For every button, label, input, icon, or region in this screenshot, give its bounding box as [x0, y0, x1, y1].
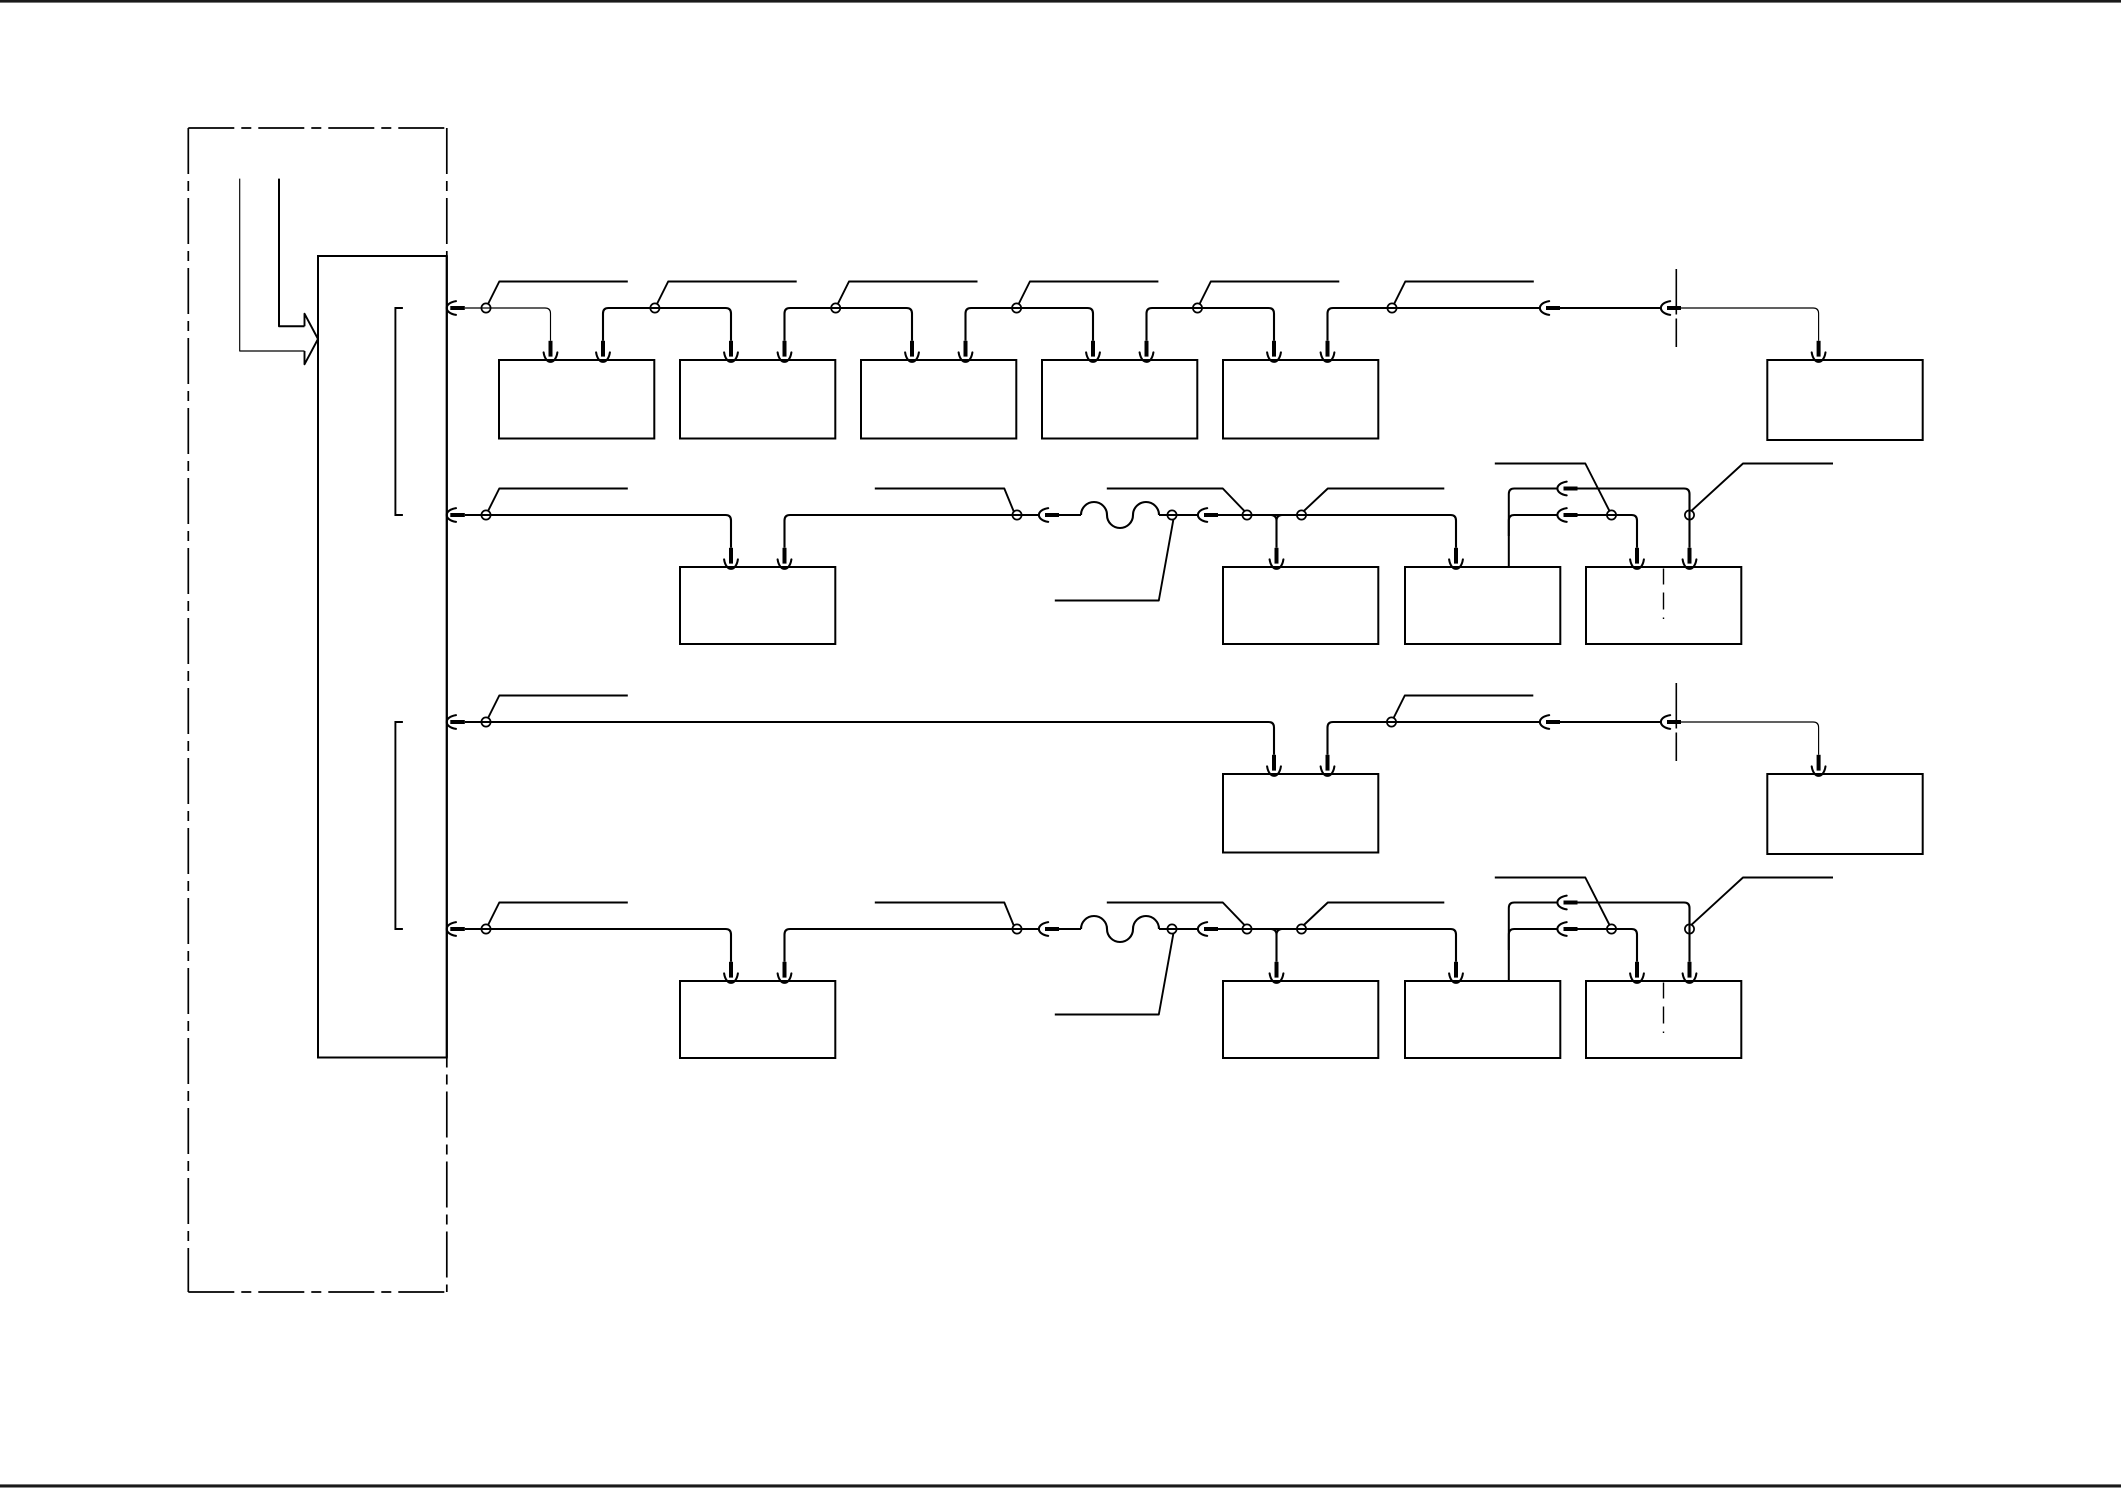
terminal blade 3A-2 [1326, 755, 1330, 771]
callout leader S1-4 [1018, 282, 1158, 305]
page bottom border bar [0, 1484, 2121, 1487]
receptacle cup M6 [1812, 352, 1826, 361]
splice ring S2-B [1167, 510, 1176, 519]
receptacle cup 4C-1 [1449, 973, 1463, 982]
bracket circuits 1-2 [395, 308, 403, 515]
terminal blade 2B [1275, 548, 1279, 564]
splice ring S2-A [1012, 510, 1021, 519]
wire circuit1 seg f [1328, 308, 1541, 341]
wire circuit4 seg e [1218, 929, 1456, 962]
wire circuit4 seg c [1059, 928, 1081, 930]
unit box row1-2 [680, 360, 835, 439]
connector socket X1 (circuit 2 feed) [447, 508, 456, 522]
receptacle cup M1-2 [596, 352, 610, 361]
unit box row4-C [1586, 981, 1741, 1058]
connector blade X1 (circuit 3 feed) [450, 720, 465, 724]
junction block right bus line [446, 256, 448, 1058]
connector socket X2b inline [1198, 508, 1207, 522]
splice ring S1-3 [831, 303, 840, 312]
wire stacked lower out circuit2 [1578, 515, 1638, 548]
callout leader S2-C [1107, 489, 1245, 512]
connector socket X4a inline [1039, 922, 1048, 936]
callout leader S2-E2 [1691, 464, 1833, 511]
splice ring S1-4 [1012, 303, 1021, 312]
terminal blade M5-1 [1272, 341, 1276, 357]
connector blade X4b inline [1204, 927, 1218, 931]
receptacle cup M1-1 [544, 352, 558, 361]
connector blade X1 (circuit 1 feed) [450, 306, 465, 310]
receptacle cup 2B [1270, 559, 1284, 568]
splice ring S1-5 [1193, 303, 1202, 312]
wire circuit2 seg a [465, 515, 731, 548]
connector socket X4b inline [1198, 922, 1207, 936]
callout leader S4-E2 [1691, 878, 1833, 925]
terminal blade M3-1 [910, 341, 914, 357]
unit box row1-3 [861, 360, 1016, 439]
callout leader S2-A [875, 489, 1014, 512]
connector socket X1 (circuit 3 feed) [447, 715, 456, 729]
splice ring S2-0 [481, 510, 490, 519]
connector blade X4a inline [1045, 927, 1059, 931]
wire circuit1 seg d [966, 308, 1094, 341]
trunk line lower (dash-dot) [446, 1058, 448, 1293]
connector blade X3b inline [1667, 720, 1681, 724]
receptacle cup M2-1 [724, 352, 738, 361]
vehicle body outline top edge (dash-dot) [188, 127, 447, 129]
terminal blade 2D-1 [1635, 548, 1639, 564]
receptacle cup 2C-1 [1449, 559, 1463, 568]
terminal blade 4D-2 [1688, 962, 1692, 978]
terminal blade 4A-2 [783, 962, 787, 978]
terminal blade M4-2 [1145, 341, 1149, 357]
callout leader S1-1 [488, 282, 628, 305]
terminal blade 4D-1 [1635, 962, 1639, 978]
connector blade X4c stacked upper [1564, 901, 1578, 905]
terminal blade 3B [1817, 755, 1821, 771]
terminal blade M1-1 [549, 341, 553, 357]
connector blade X2a inline [1045, 513, 1059, 517]
terminal blade M1-2 [601, 341, 605, 357]
wire circuit4 seg b [785, 929, 1040, 962]
terminal blade 4B [1275, 962, 1279, 978]
connector blade X1 (circuit 4 feed) [450, 927, 465, 931]
receptacle cup M5-2 [1321, 352, 1335, 361]
unit box row4-1 [680, 981, 835, 1058]
connector blade X2b inline [1667, 306, 1681, 310]
receptacle cup 3B [1812, 766, 1826, 775]
callout leader S4-D [1303, 903, 1444, 926]
junction block J/B [318, 256, 447, 1058]
splice ring S1-1 [481, 303, 490, 312]
receptacle cup 3A-1 [1267, 766, 1281, 775]
terminal blade 4C-1 [1454, 962, 1458, 978]
callout leader S2-0 [488, 489, 628, 512]
receptacle cup 2D-2 [1683, 559, 1697, 568]
callout leader S4-B [1055, 933, 1174, 1014]
receptacle cup 2D-1 [1630, 559, 1644, 568]
receptacle cup 2A-1 [724, 559, 738, 568]
unit box row4-B [1405, 981, 1560, 1058]
terminal blade M2-1 [729, 341, 733, 357]
unit box row1-1 [499, 360, 654, 439]
wire circuit1 seg b [603, 308, 731, 341]
connector blade X2a inline [1546, 306, 1560, 310]
receptacle cup M4-1 [1086, 352, 1100, 361]
unit box row2-A [1223, 567, 1378, 644]
receptacle cup M5-1 [1267, 352, 1281, 361]
branch tee circuit2 [1271, 515, 1281, 548]
splice ring S2-D [1297, 510, 1306, 519]
callout leader S3-0 [488, 696, 628, 719]
splice ring S2-E1 [1607, 510, 1616, 519]
terminal blade M5-2 [1326, 341, 1330, 357]
callout leader S1-3 [838, 282, 978, 305]
unit box row4-A [1223, 981, 1378, 1058]
wire circuit3 seg d (thin) [1681, 722, 1819, 755]
wire branch upper tail circuit4 [1509, 903, 1558, 982]
wire circuit2 seg e [1218, 515, 1456, 548]
terminal blade 2C-1 [1454, 548, 1458, 564]
connector socket X1 (circuit 1 feed) [447, 301, 456, 315]
splice ring S4-B [1167, 924, 1176, 933]
receptacle cup M2-2 [778, 352, 792, 361]
connector blade X2b inline [1204, 513, 1218, 517]
splice ring S4-A [1012, 924, 1021, 933]
branch tee circuit4 [1271, 929, 1281, 962]
wire loom loop circuit2 [1081, 502, 1159, 528]
wire circuit1 seg g [1560, 307, 1662, 309]
feed wire thick tail [279, 179, 305, 327]
terminal blade 4A-1 [729, 962, 733, 978]
wire stacked lower out circuit4 [1578, 929, 1638, 962]
receptacle cup M4-2 [1140, 352, 1154, 361]
partition line box row4-C (dashed) [1663, 983, 1665, 1034]
terminal blade 3A-1 [1272, 755, 1276, 771]
connector socket X3a inline [1540, 715, 1549, 729]
unit box row3-1 [1223, 774, 1378, 853]
callout leader S2-E1 [1495, 464, 1610, 511]
unit box row1-5 [1223, 360, 1378, 439]
connector socket X4c stacked upper [1557, 896, 1566, 910]
wire circuit2 seg b [785, 515, 1040, 548]
wire circuit3 seg c [1560, 721, 1662, 723]
callout leader S1-5 [1199, 282, 1339, 305]
callout leader S4-E1 [1495, 878, 1610, 925]
unit box row2-C [1586, 567, 1741, 644]
vehicle body outline left edge (dash-dot) [187, 128, 189, 1292]
splice ring S4-E2 [1685, 924, 1694, 933]
wire circuit1 seg h (thin) [1681, 308, 1819, 341]
wire branch upper tail circuit2 [1509, 489, 1558, 568]
connector blade X3a inline [1546, 720, 1560, 724]
callout leader S4-A [875, 903, 1014, 926]
receptacle cup 3A-2 [1321, 766, 1335, 775]
connector blade X4d stacked lower [1564, 927, 1578, 931]
callout leader S2-D [1303, 489, 1444, 512]
callout leader S2-B [1055, 519, 1174, 600]
splice ring S1-6 [1387, 303, 1396, 312]
unit box row1-4 [1042, 360, 1197, 439]
callout leader S4-0 [488, 903, 628, 926]
receptacle cup 4D-1 [1630, 973, 1644, 982]
wire circuit1 seg e [1147, 308, 1275, 341]
splice ring S4-D [1297, 924, 1306, 933]
receptacle cup M3-2 [959, 352, 973, 361]
receptacle cup 4B [1270, 973, 1284, 982]
wire circuit2 seg d [1159, 514, 1199, 516]
splice ring S1-2 [650, 303, 659, 312]
connector socket X2c stacked upper [1557, 482, 1566, 496]
wire circuit4 seg a [465, 929, 731, 962]
connector socket X2b inline [1661, 301, 1670, 315]
connector blade X2c stacked upper [1564, 487, 1578, 491]
callout leader S1-2 [657, 282, 797, 305]
receptacle cup 2A-2 [778, 559, 792, 568]
bracket circuits 3-4 [395, 722, 403, 929]
wire circuit3 seg b [1328, 722, 1541, 755]
wire circuit2 seg c [1059, 514, 1081, 516]
terminal blade M4-1 [1091, 341, 1095, 357]
wire circuit3 seg a [465, 722, 1274, 755]
splice ring S3-1 [1387, 717, 1396, 726]
wire stacked upper out circuit2 [1578, 489, 1690, 548]
callout leader S3-1 [1393, 696, 1533, 719]
connector socket X3b inline [1661, 715, 1670, 729]
receptacle cup M3-1 [905, 352, 919, 361]
terminal blade M6 [1817, 341, 1821, 357]
terminal blade M2-2 [783, 341, 787, 357]
unit box row1 far right [1767, 360, 1922, 440]
connector socket X2a inline [1039, 508, 1048, 522]
wire circuit4 seg d [1159, 928, 1199, 930]
wire loom loop circuit4 [1081, 916, 1159, 942]
wire branch lower tail circuit2 [1509, 515, 1558, 536]
wire stacked upper out circuit4 [1578, 903, 1690, 962]
receptacle cup 4A-1 [724, 973, 738, 982]
receptacle cup 4D-2 [1683, 973, 1697, 982]
terminal blade 2D-2 [1688, 548, 1692, 564]
feed wire thin tail [240, 179, 305, 351]
splice ring S2-C [1242, 510, 1251, 519]
feed arrow head [305, 314, 319, 365]
connector socket X2a inline [1540, 301, 1549, 315]
wire circuit1 seg a (thin) [465, 308, 551, 341]
terminal blade 2A-1 [729, 548, 733, 564]
section mark circuit3 (dashed) [1675, 683, 1677, 761]
terminal blade M3-2 [964, 341, 968, 357]
callout leader S1-6 [1394, 282, 1534, 305]
callout leader S4-C [1107, 903, 1245, 926]
connector socket X4d stacked lower [1557, 922, 1566, 936]
wire circuit1 seg c [785, 308, 913, 341]
connector socket X2d stacked lower [1557, 508, 1566, 522]
wire branch lower tail circuit4 [1509, 929, 1558, 950]
splice ring S4-E1 [1607, 924, 1616, 933]
splice ring S4-0 [481, 924, 490, 933]
connector blade X1 (circuit 2 feed) [450, 513, 465, 517]
unit box row3 far right [1767, 774, 1922, 854]
connector blade X2d stacked lower [1564, 513, 1578, 517]
splice ring S4-C [1242, 924, 1251, 933]
vehicle body outline bottom edge (dash-dot) [188, 1291, 447, 1293]
receptacle cup 4A-2 [778, 973, 792, 982]
splice ring S3-0 [481, 717, 490, 726]
section mark circuit1 (dashed) [1675, 269, 1677, 347]
trunk line upper (dash-dot) [446, 128, 448, 256]
unit box row2-B [1405, 567, 1560, 644]
connector socket X1 (circuit 4 feed) [447, 922, 456, 936]
terminal blade 2A-2 [783, 548, 787, 564]
splice ring S2-E2 [1685, 510, 1694, 519]
partition line box row2-C (dashed) [1663, 569, 1665, 620]
page top border bar [0, 0, 2121, 3]
unit box row2-1 [680, 567, 835, 644]
